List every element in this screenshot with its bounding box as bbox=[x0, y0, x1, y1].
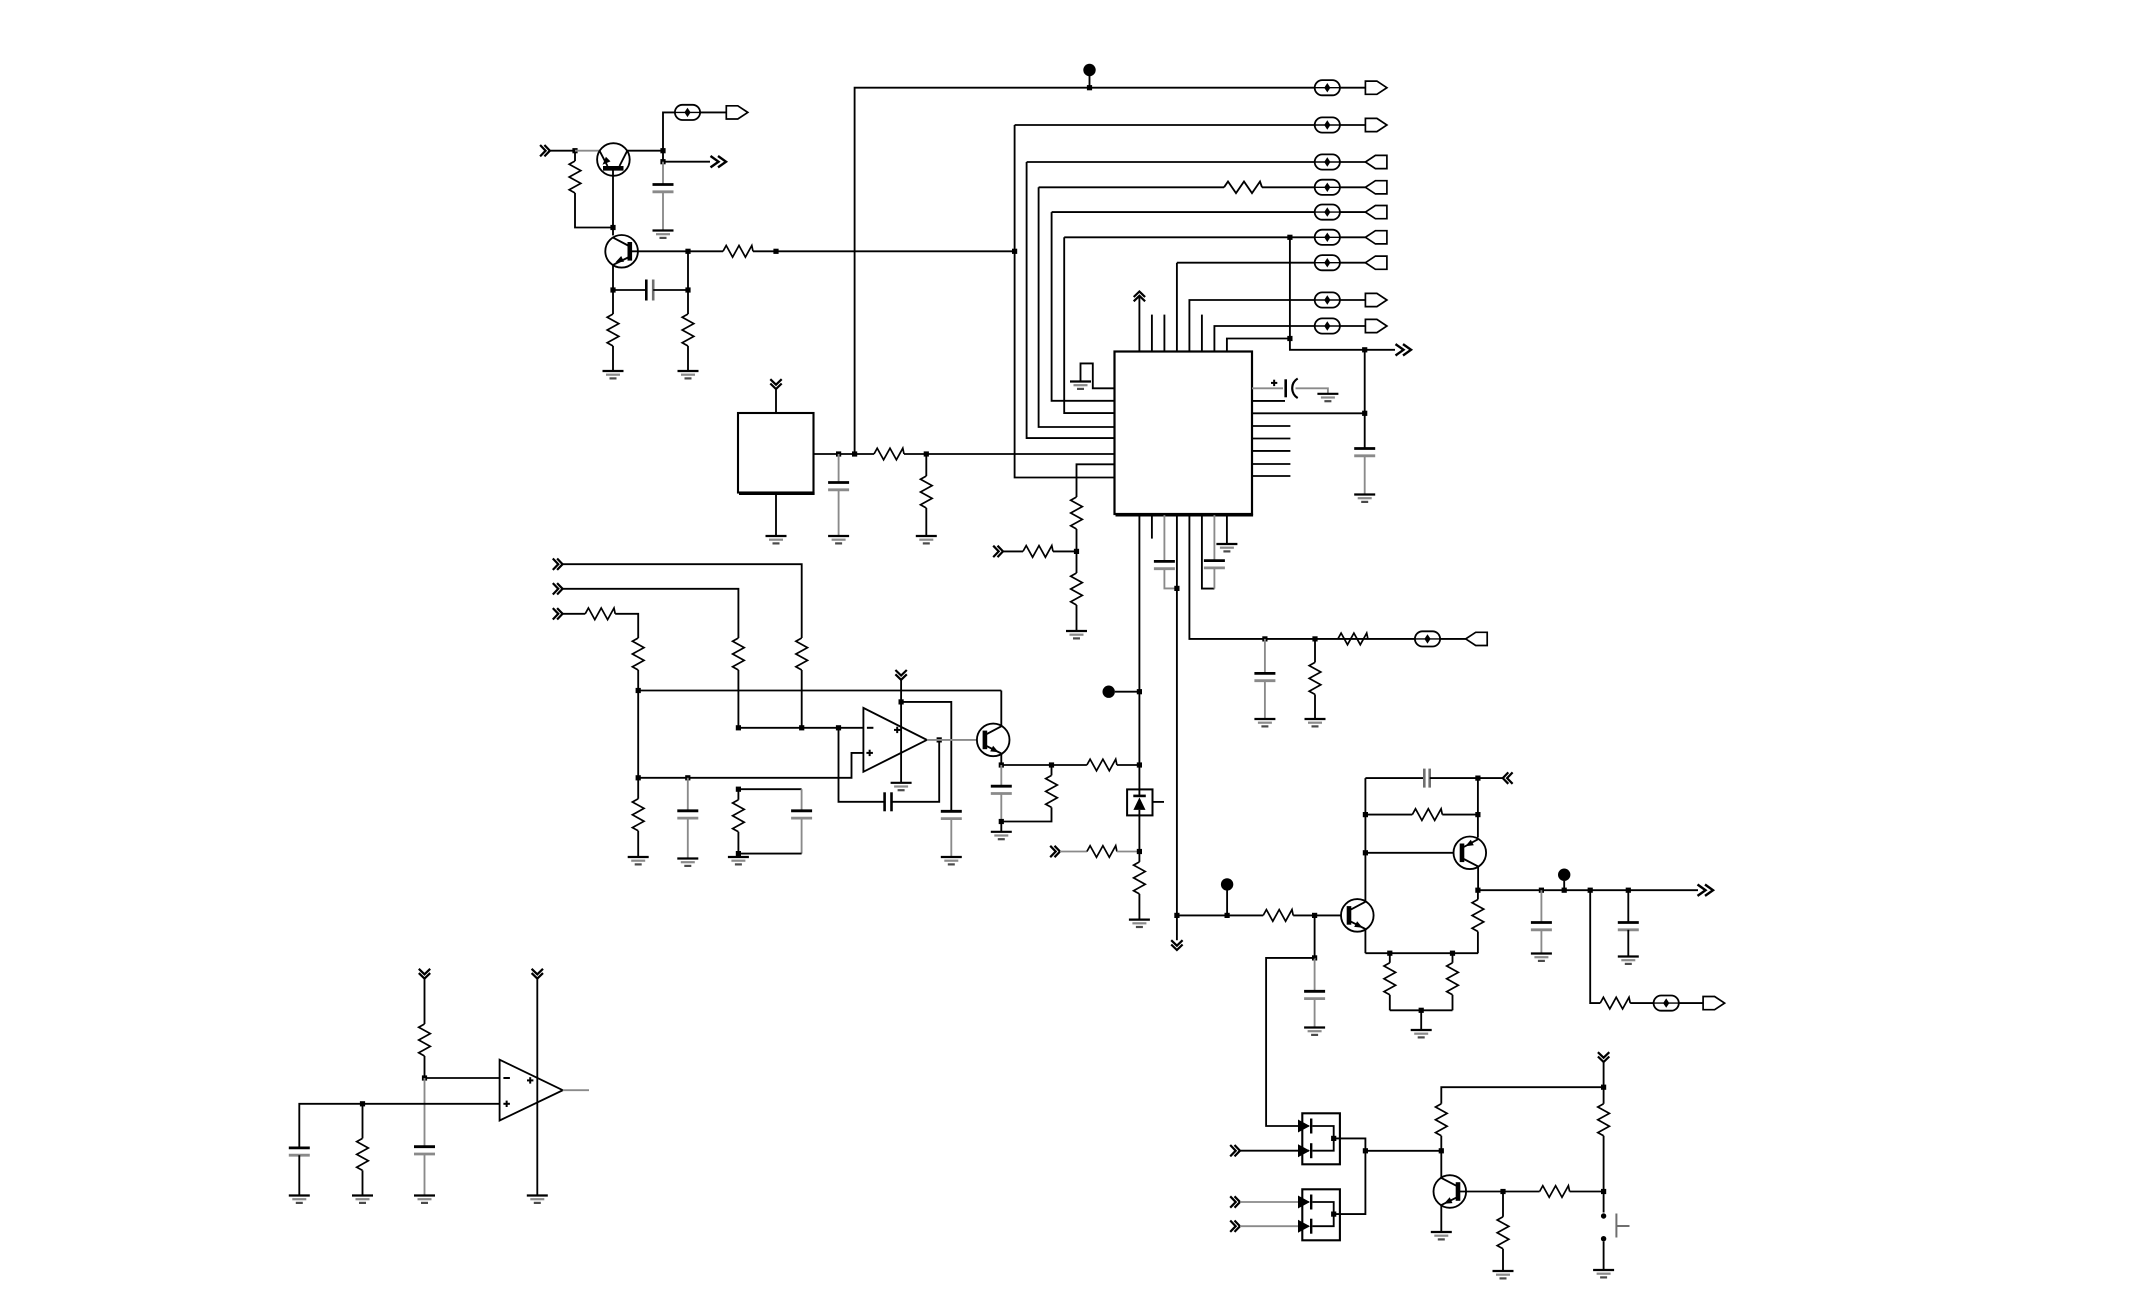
out arrow chevron output bbox=[1698, 885, 1714, 896]
power arrow bottom right bbox=[1598, 1052, 1609, 1062]
junction C6 to pin4 bbox=[1174, 586, 1179, 591]
wire C17 lead bbox=[1627, 890, 1629, 922]
wire supply node down bbox=[637, 691, 639, 778]
wire R23 to Q4 base bbox=[1293, 914, 1341, 916]
resistor R12 bbox=[1309, 662, 1321, 694]
wire R3 to ground bbox=[612, 346, 614, 371]
wire oval to flag row11 bbox=[1679, 1002, 1704, 1004]
wire DP1 output bbox=[1334, 1138, 1366, 1214]
port TH chevron bbox=[1050, 846, 1060, 857]
junction plus rail cap tap bbox=[685, 775, 690, 780]
ground C9 bbox=[677, 859, 698, 866]
junction R5 out bbox=[924, 451, 929, 456]
wire plus input rail bbox=[638, 753, 863, 778]
wire busF elbow to divider bbox=[1077, 464, 1115, 497]
resistor R23 bbox=[1263, 910, 1293, 922]
wire C13 bottom lead bbox=[1000, 794, 1002, 822]
wire G2 to DP2 input1 bbox=[1240, 1201, 1309, 1203]
wire supply tap to C11 bbox=[901, 702, 951, 811]
port G1 chevron bbox=[1230, 1145, 1240, 1156]
resistor R15 bbox=[585, 608, 615, 620]
wire R16 bottom bbox=[637, 670, 639, 691]
junction bypass tap bbox=[1362, 347, 1367, 352]
junction Q3 emitter node bbox=[999, 762, 1004, 767]
diode pack DP1 box bbox=[1302, 1113, 1340, 1164]
wire right pin8 stub bbox=[1252, 475, 1290, 477]
wire pin4 branch to base row bbox=[1177, 914, 1263, 916]
port IN1 chevron bbox=[540, 145, 550, 156]
wire pin2 top stub bbox=[1151, 315, 1153, 352]
wire Q5 base bbox=[1365, 852, 1453, 854]
diode pack DP2 box bbox=[1302, 1189, 1340, 1240]
regulator U2 box bbox=[738, 413, 815, 494]
ground Q3 stage bbox=[991, 832, 1012, 839]
wire C17 to ground bbox=[1627, 930, 1629, 957]
junction at R1 top bbox=[572, 148, 577, 153]
op-amp U1 bbox=[863, 708, 927, 772]
wire Q5 collector bbox=[1477, 866, 1479, 890]
junction op-amp supply tap bbox=[899, 699, 904, 704]
junction Q1 base node bbox=[610, 225, 615, 230]
wire to out arrow bbox=[663, 161, 710, 163]
wire C13 lead bbox=[1000, 765, 1002, 786]
wire R27 bottom bbox=[1452, 995, 1454, 1011]
wire Q4 emitter bbox=[1364, 929, 1366, 953]
wire Q6 emitter to ground bbox=[1440, 1205, 1442, 1232]
wire output branch down bbox=[1590, 890, 1600, 1003]
transistor Q3 bbox=[977, 724, 1010, 757]
diode D4 bbox=[1298, 1219, 1311, 1234]
flag row7 bbox=[1365, 256, 1387, 269]
capacitor C12 feedback bbox=[885, 792, 892, 811]
wire bus C vertical bbox=[1039, 187, 1115, 427]
ground C18 bbox=[414, 1196, 435, 1203]
wire Q5 emitter vertical bbox=[1477, 778, 1479, 837]
wire C6 to pin4 net bbox=[1164, 569, 1177, 589]
wire minus node down bbox=[424, 1078, 426, 1147]
junction dot to pin1 net bbox=[1137, 689, 1142, 694]
junction Q2 base net bbox=[685, 249, 690, 254]
wire to R24 bbox=[1365, 814, 1412, 816]
wire parallel cap bottom link bbox=[738, 853, 801, 855]
wire left pin1 elbow to ground bbox=[1081, 363, 1115, 388]
junction DP2 output bbox=[1331, 1212, 1336, 1217]
connector oval row1 bbox=[1315, 80, 1340, 95]
wire output run bbox=[1478, 889, 1698, 891]
wire pin5 top to row8 bbox=[1189, 300, 1315, 352]
ground R32 bbox=[1493, 1271, 1514, 1278]
wire to out arrow bbox=[1365, 349, 1395, 351]
capacitor C8 bbox=[1254, 673, 1275, 680]
capacitor C11 bbox=[941, 811, 962, 818]
port SENSE2 chevron bbox=[553, 583, 563, 594]
wire regulator output bbox=[814, 453, 875, 455]
wire Q6 base bbox=[1460, 1191, 1503, 1193]
ground C3 bbox=[828, 536, 849, 543]
diode D2 bbox=[1298, 1143, 1311, 1158]
wire dot stem bbox=[1115, 691, 1140, 693]
junction minus rail c bbox=[836, 725, 841, 730]
wire oval to flag row5 bbox=[1340, 211, 1366, 213]
ground U4 bbox=[527, 1196, 548, 1203]
connector oval row8 bbox=[1315, 292, 1340, 307]
chevron left AGC bbox=[1503, 772, 1513, 783]
wire emitter node to C2 bbox=[613, 289, 646, 291]
power arrow into regulator bbox=[770, 379, 781, 389]
wire R4 top lead bbox=[687, 290, 689, 314]
wire right pin2 stub bbox=[1252, 400, 1285, 402]
wire R22 to ground bbox=[1138, 894, 1140, 920]
wire right pin7 stub bbox=[1252, 463, 1290, 465]
wire oval to flag row7 bbox=[1340, 262, 1366, 264]
wire long run to bus A bbox=[776, 250, 1015, 252]
junction R18 top bbox=[736, 787, 741, 792]
connector oval row10 bbox=[1415, 631, 1440, 646]
wire C16 to ground bbox=[1540, 930, 1542, 954]
ground pin8 bbox=[1216, 544, 1237, 551]
transistor Q4 bbox=[1341, 899, 1374, 932]
junction right pin3 net bbox=[1362, 411, 1367, 416]
wire bus E vertical bbox=[1064, 237, 1114, 413]
wire row7 bbox=[1177, 262, 1315, 264]
resistor R21 bbox=[1087, 846, 1117, 858]
wire C1 to ground bbox=[662, 192, 664, 231]
flag row8 bbox=[1365, 293, 1387, 306]
wire top cap row bbox=[1365, 777, 1424, 779]
ground C4 bbox=[1317, 394, 1338, 401]
junction output cap2 bbox=[1626, 888, 1631, 893]
wire long supply run bbox=[638, 690, 1001, 692]
wire R1 bottom to Q1 base node bbox=[575, 193, 613, 228]
power dot output bbox=[1558, 869, 1570, 881]
resistor R30 bbox=[1598, 1104, 1610, 1136]
wire dot stem bbox=[1226, 890, 1228, 915]
ground R22 bbox=[1129, 920, 1150, 927]
ground C11 bbox=[941, 857, 962, 864]
flag row4 bbox=[1365, 181, 1387, 194]
resistor R29 bbox=[1436, 1104, 1448, 1136]
junction Q6 collector net bbox=[1439, 1148, 1444, 1153]
diode D1 bbox=[1298, 1119, 1311, 1134]
junction DP1 output bbox=[1331, 1136, 1336, 1141]
wire R13 bottom bbox=[801, 670, 803, 728]
wire R2 to long run bbox=[753, 250, 776, 252]
wire row2 bbox=[1015, 124, 1315, 126]
power arrow pin4 down bbox=[1171, 940, 1182, 950]
wire diode bus to Q6 collector net bbox=[1365, 1150, 1441, 1152]
wire node up to connector row bbox=[663, 112, 675, 150]
junction diode bus tap bbox=[1363, 1148, 1368, 1153]
resistor R22 bbox=[1134, 862, 1146, 894]
ground driver pair bbox=[1411, 1030, 1432, 1037]
wire Q1 collector to node bbox=[627, 150, 663, 152]
transistor Q1 bbox=[597, 143, 630, 176]
resistor R8 bbox=[1071, 497, 1083, 529]
wire pin6 top stub bbox=[1201, 315, 1203, 352]
wire R26 top lead bbox=[1389, 953, 1391, 963]
wire row6 bbox=[1064, 236, 1315, 238]
resistor R32 bbox=[1497, 1217, 1509, 1249]
junction rail R27 bbox=[1450, 951, 1455, 956]
resistor R25 bbox=[1472, 900, 1484, 932]
junction feedback mid bbox=[1475, 812, 1480, 817]
wire oval to flag row8 bbox=[1340, 299, 1366, 301]
flag row5 bbox=[1365, 206, 1387, 219]
junction row6 branch bbox=[1287, 235, 1292, 240]
flag row6 bbox=[1365, 231, 1387, 244]
wire minus node to op-amp bbox=[425, 1077, 500, 1079]
ground R3 bbox=[603, 371, 624, 378]
resistor R16 bbox=[632, 638, 644, 670]
ground SW1 bbox=[1593, 1270, 1614, 1277]
wire pin2 bottom stub bbox=[1151, 515, 1153, 539]
ground op-amp bbox=[891, 783, 912, 790]
wire pin4 top to row7 bbox=[1176, 263, 1178, 352]
wire pin1 top bbox=[1138, 296, 1140, 352]
ground R6 bbox=[916, 536, 937, 543]
wire R18 top lead bbox=[737, 789, 739, 800]
port G3 chevron bbox=[1230, 1221, 1240, 1232]
resistor R17 bbox=[632, 799, 644, 831]
pin 1 top power arrow bbox=[1134, 292, 1145, 302]
wire IN1 to R1 top bbox=[550, 150, 575, 152]
wire pin8 bottom stub bbox=[1226, 515, 1228, 544]
junction pin8 to row6 net bbox=[1287, 336, 1292, 341]
capacitor C9 bbox=[677, 811, 698, 818]
wire pin3 top stub bbox=[1163, 315, 1165, 352]
junction divider mid bbox=[1074, 549, 1079, 554]
wire C14 to ground bbox=[1314, 999, 1316, 1028]
wire SENSE3 to R15 bbox=[563, 613, 586, 615]
wire bottom rail bbox=[1390, 1009, 1453, 1011]
wire oval to flag row10 bbox=[1440, 638, 1466, 640]
capacitor C6 bbox=[1154, 561, 1175, 568]
capacitor C10 bbox=[791, 811, 812, 818]
wire R3 top lead bbox=[612, 290, 614, 314]
resistor R7 bbox=[1224, 182, 1262, 194]
wire R30 top lead bbox=[1603, 1087, 1605, 1104]
wire VCC rail bbox=[855, 88, 1315, 454]
wire oval to flag row6 bbox=[1340, 236, 1366, 238]
junction bottom rail bbox=[1419, 1008, 1424, 1013]
out arrow chevron bbox=[711, 156, 727, 167]
wire D1 cathode link bbox=[1313, 1126, 1334, 1151]
junction C13 bottom bbox=[999, 819, 1004, 824]
wire bus B vertical bbox=[1027, 162, 1115, 438]
wire base to R31 bbox=[1503, 1191, 1540, 1193]
resistor R19 bbox=[1087, 759, 1117, 771]
wire C11 to ground bbox=[950, 819, 952, 857]
flag row11 bbox=[1703, 997, 1725, 1010]
wire C5 to ground bbox=[1364, 456, 1366, 495]
connector oval row3 bbox=[1315, 154, 1340, 169]
wire R8 to junction bbox=[1076, 529, 1078, 551]
power dot mid bbox=[1103, 686, 1115, 698]
wire C9 to ground bbox=[687, 818, 689, 858]
wire node down to C1 bbox=[662, 151, 664, 162]
capacitor C14 bbox=[1304, 991, 1325, 998]
wire R31 to switch node bbox=[1570, 1191, 1604, 1193]
power dot base row bbox=[1221, 878, 1233, 890]
wire power to R33 bbox=[424, 979, 426, 1024]
wire C8 to ground bbox=[1264, 681, 1266, 719]
wire oval to flag row9 bbox=[1340, 325, 1366, 327]
wire right pin4 stub bbox=[1252, 425, 1290, 427]
wire oval to flag row1 bbox=[1340, 87, 1366, 89]
capacitor C1 bbox=[653, 185, 674, 192]
power arrow J2 bbox=[532, 969, 543, 979]
junction power split bbox=[1601, 1085, 1606, 1090]
transistor Q6 bbox=[1434, 1175, 1467, 1208]
wire C7 lower lead bbox=[1213, 568, 1215, 589]
wire R10 top lead bbox=[1076, 551, 1078, 573]
wire regulator ground lead bbox=[775, 494, 777, 536]
wire bus A vertical bbox=[1015, 125, 1115, 478]
wire R12 top lead bbox=[1314, 639, 1316, 663]
wire C3 lead bbox=[838, 454, 840, 483]
wire R5 to IC bbox=[904, 453, 1115, 455]
wire switch to ground bbox=[1603, 1241, 1605, 1270]
wire R25 to rail bbox=[1477, 932, 1479, 954]
IC U3 body bbox=[1115, 352, 1254, 516]
junction pin4 branch bbox=[1174, 913, 1179, 918]
power arrow op-amp bbox=[895, 670, 906, 680]
ground R10 bbox=[1066, 631, 1087, 638]
wire R33 to minus node bbox=[424, 1056, 426, 1078]
ground C17 bbox=[1618, 957, 1639, 964]
wire R24 to junction bbox=[1442, 814, 1478, 816]
wire Q1 base stem bbox=[612, 168, 614, 235]
wire power to junction bbox=[1603, 1062, 1605, 1087]
wire R10 to ground bbox=[1076, 605, 1078, 631]
junction output dot stem bbox=[1562, 888, 1567, 893]
op-amp U4 bbox=[500, 1060, 563, 1121]
wire R30 to base node bbox=[1603, 1136, 1605, 1213]
wire R32 to ground bbox=[1502, 1249, 1504, 1271]
wire bus D vertical bbox=[1052, 212, 1115, 401]
wire SENSE2 to R14 bbox=[563, 589, 739, 638]
wire emitter rail bbox=[1365, 952, 1478, 954]
wire right pin6 stub bbox=[1252, 450, 1290, 452]
flag row2 bbox=[1365, 118, 1387, 131]
wire minus input rail bbox=[738, 727, 863, 729]
wire G3 to DP2 input2 bbox=[1240, 1225, 1309, 1227]
port G2 chevron bbox=[1230, 1196, 1240, 1207]
resistor R2 bbox=[723, 246, 753, 258]
junction R21 pin1 net bbox=[1137, 849, 1142, 854]
resistor R28 bbox=[1600, 997, 1630, 1009]
junction long-run start bbox=[773, 249, 778, 254]
ground C16 bbox=[1531, 954, 1552, 961]
wire R20 top lead bbox=[1051, 765, 1053, 775]
junction reg output rail tap bbox=[852, 451, 857, 456]
junction R18 bottom bbox=[736, 851, 741, 856]
capacitor C18 bbox=[414, 1147, 435, 1154]
wire R34 top lead bbox=[362, 1104, 364, 1139]
flag row3 bbox=[1365, 155, 1387, 168]
port SENSE3 chevron bbox=[553, 608, 563, 619]
wire rail ground stem bbox=[1420, 1010, 1422, 1030]
resistor R18 bbox=[733, 800, 745, 832]
junction Q1 collector node bbox=[660, 148, 665, 153]
flag row9 bbox=[1365, 319, 1387, 332]
ground C19 bbox=[289, 1196, 310, 1203]
wire row4 right bbox=[1262, 186, 1315, 188]
ground C1 bbox=[653, 231, 674, 238]
wire C2 to base-net vertical bbox=[653, 289, 688, 291]
wire C4 to ground bbox=[1296, 388, 1328, 394]
wire R19 to pin1 net bbox=[1117, 764, 1140, 766]
wire SENSE1 to R13 bbox=[563, 564, 802, 638]
wire right pin1 to electrolytic bbox=[1252, 387, 1283, 389]
wire feedback down bbox=[839, 728, 885, 802]
diode D3 bbox=[1298, 1195, 1311, 1210]
junction supply node bbox=[636, 688, 641, 693]
wire G1 to DP1 input2 bbox=[1240, 1150, 1309, 1152]
wire Q4 collector vertical bbox=[1364, 778, 1366, 902]
wire C3 to ground bbox=[838, 490, 840, 536]
junction feedback top bbox=[1475, 776, 1480, 781]
wire emitter rail bbox=[1001, 764, 1087, 766]
wire Q2 base to junction bbox=[632, 250, 688, 252]
wire Q1 emitter side bbox=[575, 150, 600, 152]
wire pin5 bottom to RC row bbox=[1189, 515, 1415, 639]
resistor R34 bbox=[357, 1138, 369, 1170]
wire C8 lead bbox=[1264, 639, 1266, 674]
resistor R11 bbox=[1338, 633, 1368, 645]
wire R6 top lead bbox=[925, 454, 927, 476]
wire pin8 top elbow bbox=[1227, 339, 1290, 352]
resistor R10 bbox=[1071, 573, 1083, 605]
resistor R26 bbox=[1384, 963, 1396, 995]
wire D3 cathode link bbox=[1313, 1202, 1334, 1226]
wire power to collector branch bbox=[1441, 1087, 1603, 1104]
wire pin7 bottom lead bbox=[1213, 515, 1215, 561]
ground R12 bbox=[1305, 719, 1326, 726]
wire C19 to ground bbox=[298, 1155, 300, 1195]
junction plus-input node bbox=[636, 775, 641, 780]
junction minus node bbox=[422, 1075, 427, 1080]
connector oval row6 bbox=[1315, 230, 1340, 245]
wire R34 to ground bbox=[362, 1170, 364, 1195]
resistor R24 bbox=[1412, 809, 1442, 821]
wire C18 to ground bbox=[424, 1154, 426, 1196]
switch SW1 bbox=[1601, 1213, 1630, 1241]
junction VCC stem bbox=[1087, 85, 1092, 90]
wire output dot stem bbox=[1563, 881, 1565, 891]
connector oval P1 bbox=[675, 105, 700, 120]
wire R12 to ground bbox=[1314, 694, 1316, 719]
ground R4 bbox=[678, 371, 699, 378]
wire pin1 bottom long vertical bbox=[1138, 515, 1140, 789]
junction Q5 collector node bbox=[1475, 888, 1480, 893]
wire Q3 emitter bbox=[1000, 754, 1002, 766]
wire R15 to corner bbox=[615, 614, 638, 638]
connector oval row11 bbox=[1654, 996, 1679, 1011]
wire pin3 bottom lead bbox=[1163, 515, 1165, 561]
resistor R27 bbox=[1447, 963, 1459, 995]
capacitor C4 electrolytic bbox=[1271, 379, 1298, 399]
connector oval row4 bbox=[1315, 180, 1340, 195]
wire row5 bbox=[1052, 211, 1315, 213]
wire base net vertical bbox=[687, 251, 689, 290]
flag row10 bbox=[1466, 632, 1488, 645]
wire R29 to Q6 collector bbox=[1440, 1136, 1442, 1178]
junction minus rail b bbox=[799, 725, 804, 730]
wire to ground Q3 stage bbox=[1000, 822, 1002, 832]
junction emitter rail R20 bbox=[1049, 762, 1054, 767]
junction switch node bbox=[1601, 1189, 1606, 1194]
